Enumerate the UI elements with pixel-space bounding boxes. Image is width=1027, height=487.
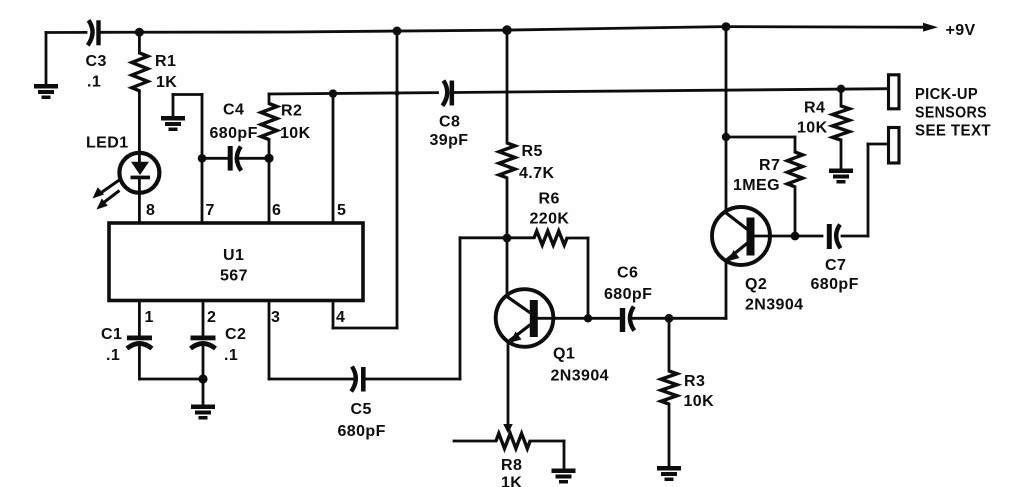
svg-text:4.7K: 4.7K [519, 165, 554, 182]
svg-text:C4: C4 [223, 102, 244, 119]
svg-text:.1: .1 [224, 347, 238, 364]
svg-text:4: 4 [336, 309, 345, 326]
svg-text:R1: R1 [155, 53, 176, 70]
svg-text:2: 2 [207, 309, 216, 326]
svg-text:SEE TEXT: SEE TEXT [915, 123, 991, 140]
svg-text:R5: R5 [522, 143, 543, 160]
svg-text:C6: C6 [617, 265, 638, 282]
svg-text:7: 7 [206, 202, 215, 219]
svg-text:C5: C5 [351, 401, 372, 418]
svg-text:.1: .1 [106, 347, 120, 364]
svg-text:680pF: 680pF [811, 276, 859, 293]
svg-text:R7: R7 [759, 157, 780, 174]
svg-text:C3: C3 [86, 53, 107, 70]
svg-text:U1: U1 [223, 247, 244, 264]
svg-text:680pF: 680pF [604, 286, 652, 303]
svg-text:LED1: LED1 [86, 135, 129, 152]
svg-text:5: 5 [337, 202, 346, 219]
svg-text:680pF: 680pF [338, 423, 386, 440]
svg-text:C8: C8 [439, 114, 460, 131]
svg-text:680pF: 680pF [210, 125, 258, 142]
svg-text:.1: .1 [87, 74, 101, 91]
svg-text:2N3904: 2N3904 [551, 368, 609, 385]
svg-text:Q2: Q2 [745, 276, 767, 293]
svg-text:39pF: 39pF [430, 132, 469, 149]
svg-text:10K: 10K [797, 120, 828, 137]
svg-text:R6: R6 [539, 191, 560, 208]
svg-text:PICK-UP: PICK-UP [915, 86, 978, 103]
svg-text:R8: R8 [501, 457, 522, 474]
svg-text:C2: C2 [225, 326, 246, 343]
svg-text:567: 567 [220, 268, 248, 285]
svg-text:220K: 220K [530, 211, 570, 228]
svg-text:10K: 10K [684, 393, 715, 410]
svg-text:1K: 1K [501, 475, 522, 487]
svg-text:R2: R2 [281, 103, 302, 120]
svg-text:+9V: +9V [946, 22, 976, 39]
svg-text:1K: 1K [156, 74, 177, 91]
svg-text:C7: C7 [825, 257, 846, 274]
svg-text:R3: R3 [684, 373, 705, 390]
svg-text:3: 3 [271, 309, 280, 326]
svg-text:C1: C1 [101, 326, 122, 343]
svg-text:R4: R4 [804, 100, 825, 117]
svg-text:Q1: Q1 [553, 346, 575, 363]
svg-text:1: 1 [145, 309, 154, 326]
svg-text:SENSORS: SENSORS [915, 104, 987, 121]
svg-text:10K: 10K [280, 125, 311, 142]
svg-text:1MEG: 1MEG [733, 177, 780, 194]
svg-text:8: 8 [146, 202, 155, 219]
svg-text:2N3904: 2N3904 [745, 297, 803, 314]
svg-text:6: 6 [272, 202, 281, 219]
